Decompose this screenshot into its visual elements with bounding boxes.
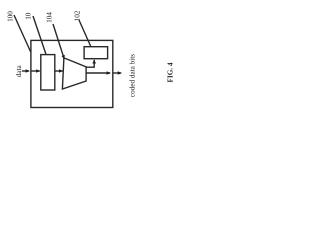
svg-text:100: 100 — [7, 11, 15, 22]
svg-text:104: 104 — [46, 12, 54, 23]
multiplexer trapezoid 104 — [62, 58, 86, 89]
leader line for 10 — [33, 16, 46, 54]
leader line for 104 (with arrowhead) — [53, 24, 64, 59]
svg-text:102: 102 — [73, 10, 81, 21]
svg-text:data: data — [15, 65, 23, 78]
svg-text:10: 10 — [24, 12, 32, 20]
block 10 (first encoder rectangle) — [41, 55, 55, 90]
wire: output arrow outside box — [113, 72, 121, 74]
wire: main output arrow to box edge — [86, 72, 110, 74]
block 102 (output register rectangle) — [84, 47, 108, 59]
outer box 100 — [31, 40, 113, 107]
leader line for 100 — [14, 15, 31, 52]
wire: block 10 to trapezoid arrow — [55, 70, 63, 72]
wire: data arrow into block 10 — [31, 70, 39, 72]
leader line for 102 — [79, 20, 91, 47]
wire: trapezoid upper output to block 102 — [86, 60, 94, 67]
svg-text:FIG. 4: FIG. 4 — [166, 62, 174, 82]
wire: data input arrow outside box — [22, 70, 29, 72]
svg-text:coded data bits: coded data bits — [128, 54, 136, 97]
